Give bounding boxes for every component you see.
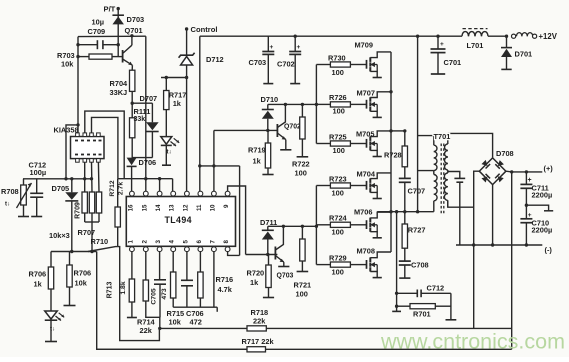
svg-text:+: + — [270, 44, 274, 51]
diode D707 — [132, 94, 158, 158]
svg-text:100: 100 — [332, 68, 344, 77]
wire tl494 top link — [118, 177, 173, 191]
svg-text:100: 100 — [332, 228, 344, 237]
svg-text:100µ: 100µ — [30, 168, 47, 177]
capacitor C712 snubber — [397, 284, 451, 298]
mosfet M706 — [354, 207, 391, 237]
svg-text:7: 7 — [209, 240, 216, 244]
wire primary node row — [377, 210, 434, 213]
capacitor C711 — [520, 172, 552, 205]
svg-text:C709: C709 — [88, 27, 106, 36]
wire mid tap — [525, 204, 554, 211]
capacitor C703 — [249, 36, 275, 83]
svg-text:D712: D712 — [206, 55, 224, 64]
svg-text:C701: C701 — [444, 58, 462, 67]
wire KIA pin1 branch — [66, 125, 78, 179]
mosfet M707 — [357, 89, 392, 118]
wire secondary bottom — [448, 200, 474, 207]
wire feedback right column — [473, 245, 475, 329]
wire pin5 drop — [186, 252, 188, 280]
svg-text:D705: D705 — [52, 184, 70, 193]
svg-text:+: + — [297, 44, 301, 51]
wire pin9 jog — [228, 186, 246, 255]
svg-text:3: 3 — [155, 240, 162, 244]
svg-text:R701: R701 — [413, 310, 431, 319]
resistor R723 — [316, 174, 356, 197]
svg-text:10k×3: 10k×3 — [49, 231, 70, 240]
svg-text:100: 100 — [333, 107, 345, 116]
resistor R713 — [107, 279, 137, 318]
svg-text:M704: M704 — [357, 170, 376, 179]
resistor R729 — [316, 253, 356, 276]
svg-text:R714: R714 — [137, 318, 156, 327]
svg-text:T701: T701 — [434, 132, 451, 141]
capacitor C702 — [277, 36, 301, 83]
resistor R707 — [78, 162, 96, 251]
svg-text:R111: R111 — [134, 107, 151, 116]
svg-text:2: 2 — [141, 240, 148, 244]
svg-text:1k: 1k — [34, 280, 43, 289]
wire KIA pin2 loop — [85, 111, 124, 179]
svg-text:D703: D703 — [127, 15, 145, 24]
svg-text:12: 12 — [182, 204, 189, 211]
wire R701 left riser — [395, 210, 398, 306]
svg-text:t↓: t↓ — [5, 202, 10, 208]
svg-text:10k: 10k — [61, 60, 74, 69]
wire pin3 drop — [159, 252, 161, 280]
svg-text:100: 100 — [295, 169, 307, 178]
transistor Q703 — [275, 225, 293, 280]
resistor R730 — [316, 54, 356, 78]
svg-text:C708: C708 — [411, 261, 429, 270]
wire pin4 drop — [172, 252, 174, 272]
wire C709 row — [76, 43, 120, 46]
resistor R717 feedback — [242, 337, 275, 352]
capacitor C708 — [399, 261, 429, 279]
resistor R111 — [130, 107, 151, 158]
svg-text:L701: L701 — [467, 41, 484, 50]
wire bridge left drop — [472, 171, 479, 247]
wire pin12 drop — [186, 78, 188, 192]
wire left rail — [76, 37, 79, 133]
wire pin11 rail — [198, 36, 201, 191]
resistor R704 — [110, 65, 135, 118]
resistor R724 — [316, 214, 356, 237]
diode D701 — [501, 36, 532, 69]
op-amp KIA358 — [54, 126, 105, 163]
wire pin6 drop — [199, 252, 201, 272]
wire feedback tap — [511, 172, 513, 349]
wire pin8 jog — [228, 252, 240, 256]
wire 10kx3 bottoms — [49, 222, 99, 240]
svg-text:11: 11 — [196, 204, 203, 211]
resistor R701 — [392, 292, 456, 320]
svg-text:R706: R706 — [74, 269, 92, 278]
svg-text:Q701: Q701 — [125, 26, 143, 35]
diode D705 — [52, 177, 79, 251]
mosfet M709 — [355, 41, 392, 78]
wire outer feedback loop — [97, 252, 247, 350]
wire gate node lower — [268, 225, 318, 228]
wire pin11 branch — [200, 164, 240, 167]
svg-text:472: 472 — [190, 318, 202, 327]
svg-text:6: 6 — [196, 240, 203, 244]
svg-text:22k: 22k — [140, 326, 153, 335]
wire pin15 pin14 stubs — [146, 179, 160, 191]
svg-text:15: 15 — [141, 204, 148, 211]
svg-text:D701: D701 — [515, 50, 533, 59]
svg-text:10k: 10k — [169, 318, 182, 327]
resistor R721 — [294, 226, 312, 298]
svg-text:Q703: Q703 — [277, 273, 294, 280]
svg-text:D706: D706 — [139, 158, 157, 167]
svg-text:10k: 10k — [75, 279, 88, 288]
wire pin2 drop — [145, 252, 147, 280]
svg-text:1k: 1k — [173, 99, 182, 108]
diode D703 — [112, 15, 144, 24]
watermark — [380, 330, 565, 354]
zener D712 — [179, 53, 224, 65]
svg-text:R708: R708 — [1, 187, 19, 196]
svg-text:R722: R722 — [292, 160, 310, 169]
svg-text:16: 16 — [127, 204, 134, 211]
capacitor C712 — [29, 161, 47, 217]
wire drive row lower — [246, 253, 278, 256]
resistor R720 — [247, 255, 275, 298]
svg-text:2200µ: 2200µ — [532, 225, 553, 234]
resistor R719 — [248, 130, 274, 174]
svg-text:4: 4 — [169, 240, 176, 244]
svg-text:R720: R720 — [247, 269, 265, 278]
svg-text:R728: R728 — [384, 151, 402, 160]
svg-text:R721: R721 — [294, 281, 312, 290]
wire diagonal to R712 — [88, 247, 118, 252]
wire LED707 bottom row — [132, 157, 153, 159]
wire gate bus upper — [315, 65, 317, 144]
wire pin15 drop — [145, 36, 147, 179]
diode D710 — [261, 95, 279, 130]
wire feedback row R718 — [160, 327, 512, 329]
svg-text:10: 10 — [209, 204, 216, 211]
wire supply bus to primary — [416, 35, 434, 212]
wire top rail — [200, 35, 508, 38]
wire secondary top to bridge — [448, 133, 493, 158]
svg-text:C712: C712 — [427, 284, 445, 293]
svg-text:+: + — [440, 41, 444, 48]
svg-text:R709: R709 — [75, 202, 82, 219]
node Control — [185, 25, 218, 34]
capacitor C709 — [88, 18, 106, 50]
diode D711 — [260, 218, 277, 255]
svg-text:P/T: P/T — [104, 5, 116, 14]
transistor Q702 — [277, 103, 301, 150]
svg-text:R725: R725 — [329, 132, 347, 141]
svg-text:M708: M708 — [357, 246, 376, 255]
svg-text:100: 100 — [332, 267, 344, 276]
wire drain bus upper — [389, 52, 392, 214]
node P/T — [104, 5, 120, 14]
resistor R705 10k — [64, 252, 92, 306]
svg-text:(-): (-) — [545, 246, 553, 255]
wire pin1 drop — [131, 252, 133, 279]
svg-text:2.7k: 2.7k — [118, 182, 125, 195]
svg-text:www.cntronics.com: www.cntronics.com — [380, 330, 565, 354]
svg-text:R707: R707 — [78, 228, 96, 237]
diode D706 — [127, 158, 157, 167]
svg-text:2200µ: 2200µ — [532, 191, 553, 200]
wire lower-left row — [51, 250, 97, 253]
mosfet M708 — [357, 246, 392, 277]
svg-text:C705: C705 — [151, 288, 158, 304]
wire gate bus lower — [315, 186, 317, 265]
resistor R714 — [137, 280, 162, 335]
wire sense row — [23, 177, 93, 180]
svg-text:33KJ: 33KJ — [110, 88, 128, 97]
svg-text:(+): (+) — [544, 164, 554, 173]
resistor R709 — [75, 162, 88, 222]
svg-text:5: 5 — [182, 240, 189, 244]
svg-text:Q702: Q702 — [284, 124, 301, 131]
svg-text:R717 22k: R717 22k — [242, 337, 275, 346]
svg-text:R729: R729 — [329, 253, 347, 262]
transistor Q701 — [123, 26, 143, 65]
svg-text:Control: Control — [191, 25, 218, 34]
wire inner loop — [118, 247, 160, 341]
svg-text:13: 13 — [169, 204, 176, 211]
resistor R716 — [198, 272, 233, 307]
svg-text:1k: 1k — [250, 278, 259, 287]
svg-text:100: 100 — [332, 188, 344, 197]
svg-text:R727: R727 — [408, 225, 426, 234]
resistor R726 — [316, 93, 356, 115]
svg-text:R710: R710 — [91, 237, 109, 246]
svg-text:1k: 1k — [253, 157, 262, 166]
svg-text:10µ: 10µ — [92, 18, 104, 27]
svg-text:100: 100 — [296, 290, 308, 299]
svg-text:R724: R724 — [329, 214, 348, 223]
wire D706 to pin16 — [131, 166, 133, 191]
resistor R712 — [109, 179, 125, 247]
capacitor C707 — [399, 178, 425, 211]
wire control drop — [186, 29, 188, 55]
led D704 — [45, 311, 64, 342]
svg-text:9: 9 — [223, 204, 230, 208]
wire rc bottoms — [173, 307, 217, 312]
resistor R722 — [292, 104, 310, 177]
ferrite bead output — [511, 32, 557, 41]
IC TL494 — [126, 191, 235, 251]
svg-text:t↓: t↓ — [167, 150, 172, 156]
wire feedback row R717 — [97, 348, 512, 350]
wire pin10 riser — [213, 130, 215, 191]
svg-text:R713: R713 — [107, 282, 114, 299]
svg-text:C702: C702 — [277, 60, 295, 69]
svg-text:M709: M709 — [355, 41, 374, 50]
wire drive row upper — [214, 129, 278, 132]
led photodiode — [161, 137, 179, 166]
svg-text:100: 100 — [333, 146, 345, 155]
svg-text:1.8k: 1.8k — [120, 281, 127, 294]
svg-text:R706: R706 — [29, 270, 47, 279]
wire KIA pin3 loop — [92, 117, 118, 178]
wire plus rail — [506, 170, 542, 173]
svg-text:+12V: +12V — [539, 32, 558, 41]
svg-text:R730: R730 — [328, 54, 346, 63]
capacitor C706 — [181, 280, 204, 326]
capacitor C705 — [151, 280, 169, 318]
svg-text:4.7k: 4.7k — [218, 285, 233, 294]
svg-text:TL494: TL494 — [165, 215, 192, 225]
svg-text:M705: M705 — [356, 129, 375, 138]
svg-text:R716: R716 — [216, 275, 234, 284]
svg-text:8: 8 — [223, 240, 230, 244]
resistor R728 — [384, 131, 408, 178]
svg-text:D710: D710 — [261, 95, 279, 104]
wire pin11 bus drop — [239, 166, 241, 256]
svg-text:D708: D708 — [496, 149, 514, 158]
svg-text:R719: R719 — [248, 146, 266, 155]
wire pin7 drop — [213, 252, 215, 308]
wire gate node upper — [268, 103, 318, 106]
bridge rectifier D708 — [479, 149, 513, 185]
label T701 — [434, 132, 451, 141]
resistor R717 upper — [164, 78, 187, 137]
svg-text:R704: R704 — [110, 79, 129, 88]
svg-text:R726: R726 — [329, 93, 347, 102]
svg-text:C707: C707 — [408, 187, 426, 196]
resistor R710 — [91, 162, 109, 246]
svg-text:D707: D707 — [140, 94, 158, 103]
mosfet M705 — [356, 129, 391, 156]
capacitor C710 — [520, 205, 552, 245]
wire bridge bottom drop — [492, 185, 494, 245]
wire minus rail — [456, 243, 542, 246]
wire secondary tap cap — [448, 172, 465, 246]
svg-text:R723: R723 — [329, 174, 347, 183]
wire control row — [161, 65, 188, 79]
resistor R727 — [402, 212, 425, 261]
svg-text:M707: M707 — [357, 89, 376, 98]
resistor R725 — [316, 132, 356, 155]
thermistor R708 — [1, 179, 32, 217]
wire m705 drain to R728 — [391, 129, 406, 132]
svg-text:C703: C703 — [249, 58, 267, 67]
transformer T701 — [434, 133, 448, 213]
inductor L701 — [462, 29, 488, 50]
svg-text:22k: 22k — [253, 317, 266, 326]
resistor R706 1k — [29, 252, 54, 312]
svg-text:473: 473 — [161, 288, 168, 300]
capacitor C701 — [431, 36, 462, 74]
svg-text:R712: R712 — [109, 180, 116, 196]
svg-text:33k: 33k — [134, 116, 146, 123]
svg-text:t↓: t↓ — [50, 327, 55, 333]
wire drain bus lower — [390, 212, 392, 252]
resistor R718 — [247, 308, 268, 331]
svg-text:M706: M706 — [354, 207, 373, 216]
node plus output — [544, 164, 554, 173]
svg-text:1: 1 — [127, 240, 134, 244]
svg-text:14: 14 — [155, 204, 162, 211]
resistor R715 — [167, 272, 185, 327]
wire top-left horizontal — [78, 34, 146, 37]
wire P/T vertical — [117, 9, 119, 45]
node minus output — [545, 246, 553, 255]
resistor R703 — [57, 45, 123, 69]
mosfet M704 — [357, 170, 392, 199]
